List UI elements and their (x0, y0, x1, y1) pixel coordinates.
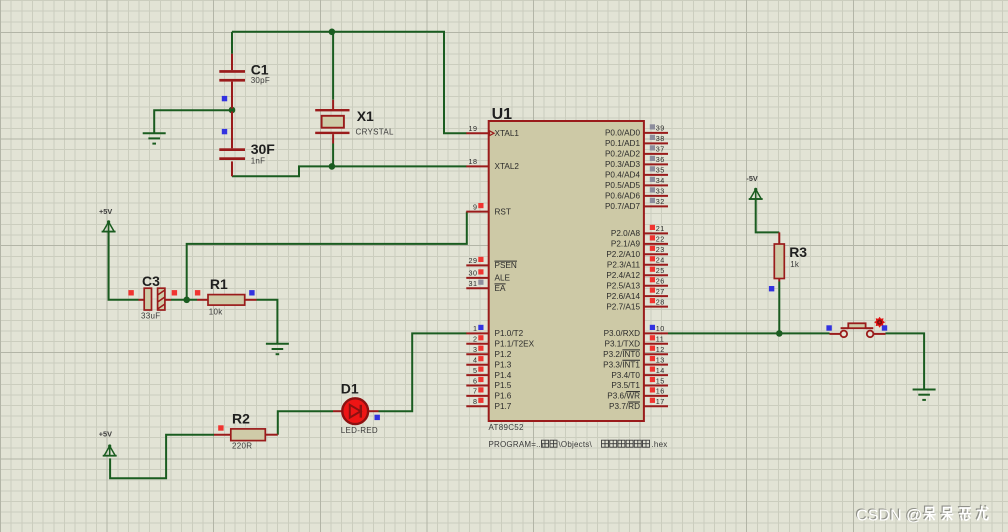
svg-text:+5V: +5V (99, 430, 112, 439)
svg-text:RST: RST (495, 207, 511, 216)
svg-text:P1.7: P1.7 (495, 402, 512, 411)
svg-text:P2.4/A12: P2.4/A12 (606, 271, 640, 280)
pin 22 P2.1/A9 (611, 235, 668, 249)
svg-text:P0.0/AD0: P0.0/AD0 (605, 129, 640, 138)
pin 7 P1.6 (466, 387, 511, 401)
svg-text:P1.5: P1.5 (495, 381, 512, 390)
svg-text:16: 16 (656, 387, 665, 396)
svg-text:P0.1/AD1: P0.1/AD1 (605, 139, 640, 148)
pin 21 P2.0/A8 (611, 224, 668, 238)
svg-text:37: 37 (656, 145, 665, 154)
pin 24 P2.3/A11 (607, 256, 668, 270)
ground symbol (R1 net) (266, 344, 289, 354)
svg-text:30: 30 (469, 269, 478, 278)
pin 8 P1.7 (466, 397, 511, 411)
svg-text:9: 9 (473, 202, 478, 211)
pin 17 P3.7/RD (609, 397, 668, 411)
svg-text:38: 38 (656, 134, 665, 143)
resistor R2 220R (214, 410, 278, 450)
svg-text:P2.7/A15: P2.7/A15 (606, 302, 640, 311)
svg-text:P2.5/A13: P2.5/A13 (606, 281, 640, 290)
wire C3 right to R1 left (171, 299, 197, 301)
svg-text:P3.6/WR: P3.6/WR (607, 392, 640, 401)
pin 38 P0.1/AD1 (605, 134, 668, 148)
svg-text:24: 24 (656, 256, 665, 265)
probe square C1 top (blue) (222, 96, 227, 101)
svg-text:XTAL2: XTAL2 (495, 162, 520, 171)
wire LED D1 to pin 1 P1.0 (379, 333, 467, 411)
pin 35 P0.4/AD4 (605, 166, 668, 180)
pin 12 P3.2/INT0 (603, 345, 668, 359)
svg-text:P2.2/A10: P2.2/A10 (606, 250, 640, 259)
wire R1 right to ground (257, 300, 278, 344)
capacitor C3 33uF (electrolytic) (139, 273, 172, 321)
probe square C3 right (red) (172, 290, 177, 295)
push button switch (830, 323, 886, 337)
pin 14 P3.4/T0 (611, 366, 668, 380)
svg-text:1: 1 (473, 324, 478, 333)
pin 6 P1.5 (466, 376, 511, 390)
svg-text:PSEN: PSEN (495, 261, 517, 270)
svg-text:25: 25 (656, 266, 665, 275)
svg-text:U1: U1 (492, 106, 513, 123)
resistor R3 1k (vertical) (774, 232, 807, 281)
svg-text:P0.5/AD5: P0.5/AD5 (605, 181, 640, 190)
svg-text:15: 15 (656, 376, 665, 385)
pin 16 P3.6/WR (607, 387, 668, 401)
resistor R1 10k (197, 276, 257, 316)
svg-text:P2.3/A11: P2.3/A11 (607, 261, 641, 270)
svg-text:C1: C1 (251, 62, 269, 78)
svg-text:7: 7 (473, 387, 478, 396)
probe square D1 right (blue) (375, 415, 380, 420)
svg-text:6: 6 (473, 376, 478, 385)
svg-text:31: 31 (469, 279, 478, 288)
svg-text:12: 12 (656, 345, 665, 354)
svg-text:8: 8 (473, 397, 478, 406)
svg-text:P3.4/T0: P3.4/T0 (611, 371, 640, 380)
svg-text:28: 28 (656, 297, 665, 306)
svg-text:P0.4/AD4: P0.4/AD4 (605, 171, 640, 180)
svg-text:29: 29 (469, 256, 478, 265)
capacitor 30F 1nF (219, 112, 275, 177)
svg-text:P1.2: P1.2 (495, 350, 512, 359)
svg-text:CRYSTAL: CRYSTAL (356, 127, 395, 136)
svg-text:C3: C3 (142, 273, 160, 289)
svg-text:36: 36 (656, 155, 665, 164)
pin 39 P0.0/AD0 (605, 124, 668, 138)
svg-text:D1: D1 (341, 380, 359, 396)
svg-text:R3: R3 (789, 244, 807, 260)
wire R2 right up to LED D1 (278, 411, 333, 435)
wire ground stub to C1/C2 midpoint (154, 110, 232, 133)
svg-text:33uF: 33uF (141, 312, 160, 321)
probe square C1 bottom (blue) (222, 129, 227, 134)
IC U1 AT89C52 body (489, 106, 668, 449)
svg-text:21: 21 (656, 224, 665, 233)
pin 18 XTAL2 (466, 157, 519, 171)
svg-text:33: 33 (656, 187, 665, 196)
svg-text:R2: R2 (232, 410, 250, 426)
probe square button left (blue) (826, 325, 831, 330)
probe square R2 left (red) (218, 425, 223, 430)
svg-text:4: 4 (473, 356, 478, 365)
svg-text:-5V: -5V (746, 174, 757, 183)
svg-text:AT89C52: AT89C52 (489, 423, 525, 432)
svg-text:22: 22 (656, 235, 665, 244)
svg-text:P3.0/RXD: P3.0/RXD (604, 329, 640, 338)
svg-text:1nF: 1nF (251, 157, 266, 166)
pin 31 EA (466, 279, 506, 293)
watermark CSDN @daidai-elong (855, 505, 988, 524)
wire -5V to R3 top (756, 200, 780, 233)
node: junction crystal bottom / XTAL2 wire (329, 163, 336, 170)
svg-text:26: 26 (656, 277, 665, 286)
svg-text:35: 35 (656, 166, 665, 175)
svg-text:11: 11 (656, 335, 664, 344)
svg-text:32: 32 (656, 197, 665, 206)
button actuator icon (red star) (874, 317, 885, 328)
svg-text:EA: EA (495, 284, 506, 293)
pin 19 XTAL1 (466, 124, 519, 138)
pin 13 P3.3/INT1 (603, 355, 668, 369)
svg-text:P1.4: P1.4 (495, 371, 512, 380)
svg-text:23: 23 (656, 245, 665, 254)
power -5V symbol (right) (746, 174, 762, 199)
wire button right to ground (886, 333, 925, 388)
pin 34 P0.5/AD5 (605, 176, 668, 190)
pin 1 P1.0/T2 (466, 324, 523, 338)
wire P3.0 net: pin 10 to R3 junction to button (668, 332, 830, 334)
svg-text:LED-RED: LED-RED (341, 426, 378, 435)
wire RST net: from C3/R1 junction up and right to pin 9 (187, 212, 467, 300)
svg-text:3: 3 (473, 345, 478, 354)
svg-text:P0.7/AD7: P0.7/AD7 (605, 202, 640, 211)
wire XTAL1 net: top horizontal, right vertical down to pin 19 (232, 32, 467, 133)
svg-text:P2.0/A8: P2.0/A8 (611, 229, 641, 238)
pin 26 P2.5/A13 (606, 277, 668, 291)
node: junction C3/R1/RST (183, 297, 190, 304)
pin 32 P0.7/AD7 (605, 197, 668, 211)
wire +5V (top) to C3 left (109, 231, 139, 299)
pin 11 P3.1/TXD (605, 335, 669, 349)
svg-text:5: 5 (473, 366, 478, 375)
ground symbol (button net) (913, 390, 936, 400)
svg-text:P2.6/A14: P2.6/A14 (606, 292, 640, 301)
probe square R1 right (blue) (249, 290, 254, 295)
pin 37 P0.2/AD2 (605, 145, 668, 159)
svg-text:XTAL1: XTAL1 (495, 129, 520, 138)
svg-text:10: 10 (656, 324, 665, 333)
svg-text:.hex: .hex (652, 440, 668, 449)
svg-text:\Objects\: \Objects\ (559, 440, 593, 449)
svg-text:CSDN @: CSDN @ (856, 508, 922, 525)
pin 9 RST (466, 202, 511, 216)
pin 36 P0.3/AD3 (605, 155, 668, 169)
pin 23 P2.2/A10 (606, 245, 668, 259)
svg-text:P3.7/RD: P3.7/RD (609, 402, 640, 411)
capacitor C1 30pF (219, 54, 270, 109)
svg-text:P3.2/INT0: P3.2/INT0 (603, 350, 640, 359)
pin 27 P2.6/A14 (606, 287, 668, 301)
node: junction R3 / P3.0 / button (776, 330, 783, 337)
svg-text:14: 14 (656, 366, 665, 375)
svg-text:P1.1/T2EX: P1.1/T2EX (495, 340, 535, 349)
svg-text:39: 39 (656, 124, 665, 133)
svg-text:10k: 10k (209, 308, 223, 317)
pin 10 P3.0/RXD (604, 324, 668, 338)
probe square R3 bottom (blue) (769, 286, 774, 291)
svg-text:R1: R1 (210, 276, 228, 292)
svg-text:P1.6: P1.6 (495, 392, 512, 401)
pin 25 P2.4/A12 (606, 266, 668, 280)
pin 2 P1.1/T2EX (466, 335, 534, 349)
svg-text:P0.6/AD6: P0.6/AD6 (605, 192, 640, 201)
svg-text:+5V: +5V (99, 207, 112, 216)
svg-text:ALE: ALE (495, 274, 511, 283)
wire +5V (bottom) to R2 left (110, 435, 214, 479)
svg-text:X1: X1 (357, 108, 374, 124)
svg-text:2: 2 (473, 335, 478, 344)
pin 3 P1.2 (466, 345, 511, 359)
svg-text:P1.0/T2: P1.0/T2 (495, 329, 524, 338)
wire R3 bottom to junction (778, 282, 780, 334)
svg-text:P0.2/AD2: P0.2/AD2 (605, 150, 640, 159)
node: junction top wire / crystal top (329, 29, 336, 36)
svg-text:P3.1/TXD: P3.1/TXD (605, 340, 641, 349)
ground symbol (left, C1/C2 net) (143, 133, 166, 143)
pin 5 P1.4 (466, 366, 511, 380)
svg-text:34: 34 (656, 176, 665, 185)
svg-text:P3.5/T1: P3.5/T1 (611, 381, 640, 390)
pin 33 P0.6/AD6 (605, 187, 668, 201)
svg-text:P0.3/AD3: P0.3/AD3 (605, 160, 640, 169)
power +5V symbol (bottom left) (99, 430, 117, 456)
svg-text:30F: 30F (251, 141, 276, 157)
LED D1 LED-RED (333, 380, 379, 435)
power +5V symbol (top left) (99, 207, 116, 232)
pin 28 P2.7/A15 (606, 297, 668, 311)
crystal X1 CRYSTAL (315, 100, 394, 144)
svg-text:18: 18 (469, 157, 478, 166)
svg-text:220R: 220R (232, 441, 252, 450)
svg-text:P3.3/INT1: P3.3/INT1 (603, 360, 640, 369)
pin 15 P3.5/T1 (611, 376, 668, 390)
svg-text:30pF: 30pF (251, 76, 270, 85)
svg-text:27: 27 (656, 287, 665, 296)
svg-text:19: 19 (469, 124, 478, 133)
svg-text:13: 13 (656, 355, 665, 364)
pin 29 PSEN (466, 256, 517, 270)
svg-text:1k: 1k (790, 260, 800, 269)
wire XTAL2 net: cap C2 bottom to crystal bottom to pin 18 (232, 144, 467, 177)
svg-text:PROGRAM=..\: PROGRAM=..\ (489, 440, 544, 449)
pin 4 P1.3 (466, 356, 511, 370)
pin 30 ALE (466, 269, 510, 283)
node: junction C1/C2 midpoint (229, 107, 236, 114)
svg-text:P2.1/A9: P2.1/A9 (611, 240, 641, 249)
probe square R1 left (red) (195, 290, 200, 295)
svg-text:P1.3: P1.3 (495, 360, 512, 369)
probe square C3 left (red) (128, 290, 133, 295)
svg-text:17: 17 (656, 397, 665, 406)
probe square button right (blue) (882, 325, 887, 330)
